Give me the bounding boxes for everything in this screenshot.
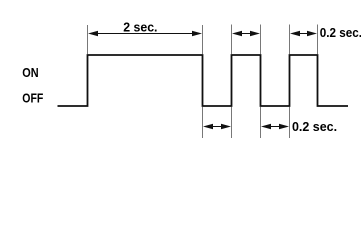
dimension arrow: gap 1 width [203,124,231,130]
extension line: bottom right of gap 1 [231,107,233,138]
label: 2 sec. [123,20,157,34]
extension line: bottom right of gap 2 [289,107,291,138]
wire: waveform trace (OFF/ON pulse train) [58,55,349,106]
extension line: bottom left of gap 2 [260,107,262,138]
label: 0.2 sec. (top) [320,26,361,41]
dimension arrow: 2 sec span [88,31,202,37]
extension line: top left of 2 sec span [87,25,89,54]
extension line: top right of pulse 3 [317,25,319,55]
extension line: top right of 2 sec span [202,25,204,54]
extension line: bottom left of gap 1 [202,107,204,138]
label: OFF [22,90,43,105]
extension line: top left of pulse 2 [231,25,233,55]
svg-text:ON: ON [22,65,38,80]
svg-text:2 sec.: 2 sec. [123,20,157,34]
label: 0.2 sec. (bottom) [292,119,337,134]
dimension arrow: pulse 3 width [290,31,317,37]
extension line: top right of pulse 2 [260,25,262,55]
svg-text:0.2 sec.: 0.2 sec. [320,26,361,41]
dimension arrow: gap 2 width [261,124,289,130]
dimension arrow: pulse 2 width [232,31,260,37]
svg-text:0.2 sec.: 0.2 sec. [292,119,337,134]
extension line: top left of pulse 3 [289,25,291,55]
svg-text:OFF: OFF [22,90,43,105]
label: ON [22,65,38,80]
